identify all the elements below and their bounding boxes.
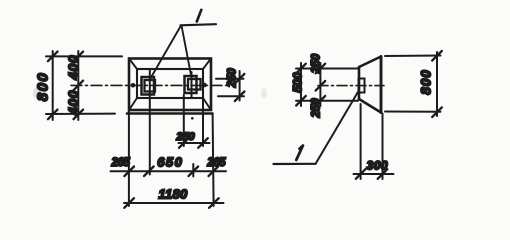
svg-text:265: 265: [111, 157, 131, 169]
right edge dot: [202, 83, 207, 88]
label 1 glyph (plan): [197, 10, 202, 22]
250 bottom extension: [218, 95, 244, 97]
tick row2 a: [124, 167, 134, 177]
right 250 dim vertical (plan): [239, 71, 241, 101]
right socket inner square: [188, 79, 201, 90]
faint smudge left: [33, 87, 41, 99]
side right dim 800 vertical: [436, 52, 438, 116]
left socket center extension vertical: [149, 69, 151, 175]
bottom 300 left vertical: [360, 104, 362, 179]
side centerline dash-dot: [318, 85, 384, 87]
inner-rect right extension vertical: [202, 99, 204, 147]
svg-text:650: 650: [157, 155, 183, 170]
tick 1180 right: [209, 198, 219, 208]
corner diagonal bottom-right: [203, 98, 211, 110]
bottom extension line (plan left): [46, 113, 115, 115]
tick 250 bot: [316, 96, 326, 106]
side dim line 500: [300, 63, 302, 106]
dim line 300: [354, 173, 394, 175]
side view top edge: [359, 57, 381, 68]
tick 400 mid: [74, 81, 84, 91]
tick 800 top: [48, 52, 58, 62]
side view trapezoid left edge: [358, 67, 361, 99]
tick 300 left: [356, 169, 366, 179]
dim line 1180: [124, 202, 224, 204]
side bottom extension: [296, 100, 358, 102]
label 1 underline (side): [274, 163, 316, 165]
plan left edge extension vertical: [128, 110, 130, 206]
leader to side socket: [316, 91, 359, 164]
bottom 300 right vertical: [382, 114, 384, 180]
faint smudge near side view: [261, 88, 267, 98]
label 1 glyph (side): [296, 146, 303, 160]
tick 500 top: [296, 64, 306, 74]
corner diagonal top-left: [129, 59, 137, 70]
tick 500 bottom: [296, 96, 306, 106]
tick 250 top: [235, 74, 245, 84]
svg-text:500: 500: [291, 72, 305, 92]
left socket inner square: [145, 80, 156, 92]
250 top extension: [216, 78, 244, 80]
side view right edge: [380, 57, 383, 113]
left dim line 800: [52, 51, 54, 120]
plan right edge extension vertical: [213, 114, 214, 207]
leader to right socket: [182, 26, 192, 76]
plan view bottom extra line: [127, 112, 213, 115]
tick 400 top: [74, 52, 84, 62]
small dot below plan: [191, 117, 194, 120]
right socket center vertical: [191, 72, 193, 98]
plan view outer rectangle: [129, 59, 211, 111]
tick 250 top: [316, 64, 326, 74]
tick row2 d: [209, 167, 219, 177]
dim line 250 (below plan): [179, 142, 210, 144]
plan view inner rectangle: [137, 69, 203, 98]
side socket rectangle: [359, 79, 365, 93]
tick 400 bottom: [74, 110, 84, 120]
svg-text:800: 800: [35, 72, 52, 102]
right socket outer square: [185, 76, 197, 93]
left socket outer square: [142, 77, 155, 95]
svg-text:250: 250: [311, 53, 323, 74]
tick row2 b: [144, 167, 154, 177]
tick 250b left: [179, 138, 189, 148]
tick 250 mid: [316, 81, 326, 91]
svg-text:250: 250: [227, 68, 239, 89]
tick row2 c: [189, 167, 199, 177]
svg-text:400: 400: [66, 90, 81, 116]
side dim line 250/250: [319, 63, 321, 106]
side 800 bottom extension: [385, 111, 441, 113]
top extension line (plan left): [46, 55, 122, 57]
svg-text:800: 800: [419, 69, 434, 95]
tick 800 bottom (side): [432, 107, 442, 117]
right socket left-edge extension vertical: [183, 95, 185, 146]
dim line 265/650/265: [111, 170, 227, 172]
corner diagonal bottom-left: [129, 98, 137, 110]
corner diagonal top-right: [203, 59, 211, 70]
svg-text:300: 300: [367, 159, 389, 173]
left dim line 400/400: [77, 51, 79, 120]
left edge dot: [131, 83, 136, 88]
plan centerline dash-dot: [71, 84, 228, 86]
svg-text:400: 400: [66, 55, 81, 81]
svg-text:250: 250: [311, 98, 323, 119]
label 1 leader underline (plan): [181, 24, 217, 25]
side 800 top extension: [385, 55, 441, 58]
tick 1180 left: [124, 198, 134, 208]
tick 250b right: [198, 138, 208, 148]
tick 250 bottom: [235, 92, 245, 102]
tick 800 bottom: [48, 110, 58, 120]
side top extension: [296, 68, 358, 70]
svg-text:250: 250: [175, 131, 195, 143]
tick 300 right: [378, 169, 388, 179]
side view bottom edge: [359, 99, 381, 113]
separator vertical 650/265: [192, 164, 194, 177]
tick 800 top (side): [432, 51, 442, 61]
svg-text:1180: 1180: [158, 187, 188, 202]
svg-text:265: 265: [206, 157, 226, 169]
leader to left socket: [150, 26, 182, 81]
